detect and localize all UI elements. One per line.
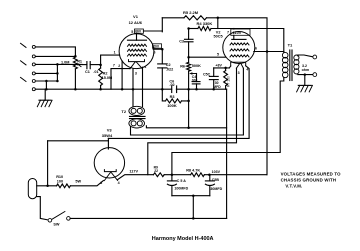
node R7 top xyxy=(224,67,227,70)
V1 grid 3 xyxy=(128,44,147,46)
V1 heater xyxy=(130,62,142,69)
label pin 5 V2 xyxy=(217,52,219,56)
node R1 top xyxy=(74,55,77,58)
svg-text:7: 7 xyxy=(113,64,115,68)
label R1 xyxy=(77,59,82,63)
label C5A xyxy=(177,179,186,183)
label R4 330K xyxy=(197,21,213,26)
capacitor C5C xyxy=(209,68,218,89)
svg-text:30MFD: 30MFD xyxy=(210,187,222,191)
wire R9 to R8 xyxy=(164,174,190,176)
svg-text:R2: R2 xyxy=(103,72,108,76)
node C4 bus xyxy=(195,88,198,91)
note voltages line2 xyxy=(281,178,337,183)
node A-R4 junction xyxy=(217,17,220,20)
label 100MFD xyxy=(174,186,188,190)
label 35W4 xyxy=(102,133,113,138)
label pin 2 xyxy=(118,64,120,68)
tube V1 envelope xyxy=(119,34,154,69)
resistor R9 22 xyxy=(153,173,164,177)
wire ground bus xyxy=(36,88,227,90)
node speaker ground xyxy=(304,73,307,76)
node R2 bottom xyxy=(99,88,102,91)
label R7 150 xyxy=(227,76,231,87)
wire R8 to plate feed xyxy=(204,174,266,176)
label pin 6 xyxy=(154,50,156,54)
label 12AU6 xyxy=(129,20,143,25)
svg-text:+8V: +8V xyxy=(215,63,222,67)
potentiometer R6 xyxy=(187,57,191,89)
V2 heater xyxy=(236,63,243,68)
label T1 xyxy=(288,42,293,47)
resistor R2 xyxy=(99,65,103,89)
svg-text:500K: 500K xyxy=(192,64,201,68)
V1 grid 2 xyxy=(128,49,147,51)
label 1.0M xyxy=(61,60,69,64)
capacitor C5A xyxy=(167,175,176,196)
label 117V xyxy=(129,169,138,173)
wire jack3 tip row xyxy=(36,80,58,82)
label 30MFD xyxy=(210,187,222,191)
wire heater top link xyxy=(48,140,109,142)
label 30 MFD xyxy=(213,81,221,89)
node jack tie B xyxy=(56,72,59,75)
svg-text:VOLTAGES MEASURED TO: VOLTAGES MEASURED TO xyxy=(281,172,342,177)
wire jack tie vertical xyxy=(56,64,58,81)
speaker terminal bottom xyxy=(313,73,317,77)
svg-text:C5B: C5B xyxy=(212,178,220,182)
wire V1 pin3 to T2 xyxy=(132,69,134,107)
wire A to B link xyxy=(217,18,219,29)
svg-text:C3: C3 xyxy=(179,40,184,44)
wire V1 pin2 xyxy=(121,61,123,89)
title xyxy=(152,236,214,242)
svg-text:.02: .02 xyxy=(169,83,174,87)
svg-text:35W4: 35W4 xyxy=(102,133,113,138)
node C1-R2 xyxy=(99,64,102,67)
svg-text:5W: 5W xyxy=(75,180,81,184)
label pin 7 xyxy=(113,64,115,68)
V2 grid 2 xyxy=(230,49,249,51)
svg-text:5: 5 xyxy=(217,52,219,56)
wire V3 pin4 to filter xyxy=(118,175,154,180)
wire V2 grid pin5 xyxy=(189,56,226,58)
label +8V xyxy=(215,63,222,67)
resistor R5 2.2M xyxy=(184,16,207,20)
wire heater riser xyxy=(47,141,49,186)
wire A right xyxy=(207,18,268,52)
svg-text:22: 22 xyxy=(154,169,158,173)
switch SW lever xyxy=(52,212,65,220)
svg-text:110V: 110V xyxy=(233,31,242,35)
label C2 .022 xyxy=(166,63,173,71)
svg-text:R6: R6 xyxy=(180,64,185,68)
wire plate riser xyxy=(161,18,163,32)
label T2 xyxy=(121,109,126,114)
svg-text:20V: 20V xyxy=(153,45,160,49)
svg-text:100MFD: 100MFD xyxy=(174,186,188,190)
label V3 pin 4 xyxy=(118,181,120,185)
node heater riser xyxy=(46,185,49,188)
T1 primary xyxy=(282,52,288,81)
wire T2 sec to B- xyxy=(146,126,226,128)
transformer T2 primary xyxy=(129,106,145,115)
svg-text:C2: C2 xyxy=(166,63,171,67)
node cap return xyxy=(192,217,195,220)
svg-text:50C5: 50C5 xyxy=(214,35,223,39)
capacitor C1 xyxy=(82,62,101,69)
wire V1 plate to riser xyxy=(137,31,163,34)
input jack J2 tick xyxy=(21,61,27,65)
capacitor C5B xyxy=(205,175,214,196)
svg-text:5: 5 xyxy=(131,30,133,34)
svg-text:Harmony Model H-400A: Harmony Model H-400A xyxy=(152,236,214,242)
node B left xyxy=(187,27,190,30)
node bus-ground stem xyxy=(45,88,48,91)
wire cap bus drop xyxy=(192,196,194,219)
svg-text:100K: 100K xyxy=(167,103,177,108)
jack contact circles xyxy=(32,45,35,90)
label SW xyxy=(53,223,60,227)
V2 pin7 stem xyxy=(233,29,235,40)
input jack J1 tick xyxy=(21,43,27,47)
svg-text:R3: R3 xyxy=(170,95,175,99)
svg-text:R7 150: R7 150 xyxy=(227,76,231,87)
wire V1 pin6 xyxy=(153,48,163,51)
V2 grid 3 xyxy=(230,43,249,45)
svg-text:4: 4 xyxy=(144,65,146,69)
resistor R4 330K xyxy=(198,26,211,30)
node cap bus xyxy=(192,194,195,197)
resistor R7 xyxy=(224,68,228,89)
label 5 +66V xyxy=(131,30,142,35)
T2 core xyxy=(130,116,146,118)
R1 wiper arrow xyxy=(77,63,81,67)
wire V2 pin edge run xyxy=(108,66,249,139)
node C5A xyxy=(171,173,174,176)
label V1 pin 3 xyxy=(135,72,137,76)
node T junction R6 node xyxy=(187,127,190,130)
T1 core xyxy=(290,50,292,81)
V2 cathode xyxy=(231,62,246,66)
switch SW contact 1 xyxy=(48,219,52,223)
ground (output) xyxy=(297,75,313,92)
svg-text:103V: 103V xyxy=(212,170,221,174)
label V1 pin 4 xyxy=(144,65,146,69)
V3 cathode xyxy=(104,170,116,172)
label pin 7 V2 xyxy=(227,30,229,34)
wire plate drop xyxy=(266,52,268,175)
label R10 100 xyxy=(56,175,63,183)
node plate junction xyxy=(266,50,269,53)
svg-text:.01: .01 xyxy=(93,70,98,74)
svg-text:CHASSIS GROUND WITH: CHASSIS GROUND WITH xyxy=(281,178,337,183)
V2 grid 1 xyxy=(230,55,249,57)
svg-text:4: 4 xyxy=(118,181,120,185)
svg-text:117V: 117V xyxy=(129,169,138,173)
svg-text:2: 2 xyxy=(118,64,120,68)
resistor R10 xyxy=(57,184,71,188)
V3 top pin xyxy=(107,138,109,149)
label R8 4.7K xyxy=(186,169,200,173)
note voltages line1 xyxy=(281,172,342,177)
label V2 pin 4 xyxy=(246,68,248,72)
wire cap return bus xyxy=(172,195,210,197)
label V3 xyxy=(107,128,113,133)
wire V2 pin4 run xyxy=(131,68,244,135)
ground (input) xyxy=(37,89,52,107)
svg-text:V1: V1 xyxy=(133,14,139,19)
wire A top xyxy=(162,17,184,19)
wire V1 grid xyxy=(101,55,120,65)
node grid junction xyxy=(187,56,190,59)
capacitor C3 xyxy=(185,29,194,58)
box 20V xyxy=(153,44,162,48)
svg-text:T1: T1 xyxy=(288,42,293,47)
svg-text:100: 100 xyxy=(57,179,63,183)
resistor R8 4.7K xyxy=(191,173,205,177)
wire jack1 tip to R1 top xyxy=(36,47,76,56)
R6 wiper arrow xyxy=(189,72,196,74)
wire line1 to V3 pin3 xyxy=(70,181,103,186)
label V3 pin 3 xyxy=(100,181,102,185)
speaker terminal top xyxy=(313,55,317,59)
box 110V xyxy=(231,29,250,35)
svg-text:SW: SW xyxy=(53,223,60,227)
svg-text:.022: .022 xyxy=(166,68,173,72)
T1 secondary xyxy=(294,55,313,75)
label R3 xyxy=(170,95,175,99)
node C5C bus xyxy=(212,88,215,91)
wire +8V xyxy=(214,66,231,68)
node R1 bottom xyxy=(74,88,77,91)
label R9 22 xyxy=(154,165,158,173)
tube V2 envelope xyxy=(223,32,255,64)
bus gap cover xyxy=(172,88,175,90)
V1 plate xyxy=(128,34,147,40)
svg-text:6: 6 xyxy=(255,47,257,51)
label C4 xyxy=(192,75,197,79)
svg-text:C 5 A: C 5 A xyxy=(177,179,186,183)
label V1 xyxy=(133,14,139,19)
wire pin6 riser xyxy=(161,49,163,64)
label .001 xyxy=(191,78,198,82)
capacitor C6 (in bus) xyxy=(172,86,177,93)
transformer T2 secondary xyxy=(129,119,145,128)
node pin3 bus xyxy=(132,88,135,91)
svg-text:MFD: MFD xyxy=(213,85,221,89)
label R6 xyxy=(180,64,185,68)
node C5B 103V xyxy=(208,173,211,176)
node pin2 bus xyxy=(121,88,124,91)
svg-text:3: 3 xyxy=(135,72,137,76)
label C6 .02 xyxy=(169,79,174,87)
svg-text:12 AU6: 12 AU6 xyxy=(129,20,143,25)
wire switch to B- xyxy=(70,217,226,219)
wire B+ to output xyxy=(172,81,284,175)
note voltages line3 xyxy=(285,183,302,188)
wire B- return xyxy=(226,89,228,218)
wire V1 pin4 to T2 xyxy=(142,67,144,106)
svg-text:1.0M: 1.0M xyxy=(61,60,69,64)
wire R6 node descent xyxy=(188,101,190,128)
node R6 bus xyxy=(187,88,190,91)
box +66V xyxy=(135,29,144,33)
label R5 2.2M xyxy=(183,10,199,15)
node C2 bus xyxy=(161,88,164,91)
label pin 6 V2 xyxy=(255,47,257,51)
svg-text:C1: C1 xyxy=(85,70,90,74)
label 20V xyxy=(153,45,160,49)
svg-text:1: 1 xyxy=(114,50,116,54)
label C5C xyxy=(203,72,211,76)
resistor R3 100K xyxy=(162,89,188,103)
node jack tie A xyxy=(56,63,59,66)
label 100K xyxy=(167,103,177,108)
capacitor C2 xyxy=(158,64,167,89)
wire V2 pin3 run xyxy=(148,68,237,175)
node jack tie C xyxy=(56,80,59,83)
label 3.2 ohm xyxy=(302,64,310,72)
svg-text:R5 2.2M: R5 2.2M xyxy=(183,10,199,15)
svg-text:R4 330K: R4 330K xyxy=(197,21,213,26)
wire jack2 sleeve row xyxy=(36,72,58,74)
potentiometer R1 xyxy=(73,57,77,89)
svg-text:ohm: ohm xyxy=(302,68,310,72)
label C1 .01 xyxy=(85,70,99,74)
V1 cathode xyxy=(129,60,145,62)
label +110V xyxy=(233,31,242,35)
tube V3 envelope xyxy=(94,148,124,178)
label 103V xyxy=(212,170,221,174)
V2 plate bar xyxy=(232,38,246,40)
wire jack3 sleeve link xyxy=(45,81,47,89)
svg-text:R8 4.7K: R8 4.7K xyxy=(186,169,200,173)
wire line2 xyxy=(37,197,48,220)
svg-text:6: 6 xyxy=(154,50,156,54)
label V2 xyxy=(216,30,221,34)
wire jack1 sleeve to R1 top node xyxy=(36,55,76,57)
switch SW contact 2 xyxy=(67,217,71,221)
V2 cathode stem xyxy=(0,0,1,1)
svg-text:T2: T2 xyxy=(121,109,126,114)
wire jack2 tip row xyxy=(36,63,83,65)
label V2 pin 3 xyxy=(238,71,240,75)
svg-text:3: 3 xyxy=(238,71,240,75)
wire B left xyxy=(189,28,198,30)
svg-text:66V: 66V xyxy=(135,30,142,34)
node R3 right xyxy=(187,100,190,103)
label 5W xyxy=(75,180,81,184)
label C5B xyxy=(212,178,220,182)
svg-text:7: 7 xyxy=(227,30,229,34)
label 500K xyxy=(192,64,201,68)
wire V2 pin6 plate xyxy=(254,51,284,53)
svg-text:R1: R1 xyxy=(77,59,82,63)
svg-text:V.T.V.M.: V.T.V.M. xyxy=(285,183,302,188)
V3 heater xyxy=(104,173,117,181)
svg-text:C5C: C5C xyxy=(203,72,211,76)
label pin 1 xyxy=(114,50,116,54)
label R2 15.0M xyxy=(102,72,113,81)
label C3 xyxy=(179,40,184,44)
svg-text:.001: .001 xyxy=(191,78,198,82)
wire V1 pin7 xyxy=(111,69,130,90)
node jack link bus xyxy=(45,80,48,83)
power plug xyxy=(28,179,36,199)
capacitor C4 xyxy=(192,74,200,90)
label 50C5 xyxy=(214,35,223,39)
V1 grid 1 xyxy=(128,54,147,56)
wire line1 xyxy=(37,185,57,187)
input jack J3 tick xyxy=(21,77,27,81)
wire B right xyxy=(211,29,284,52)
